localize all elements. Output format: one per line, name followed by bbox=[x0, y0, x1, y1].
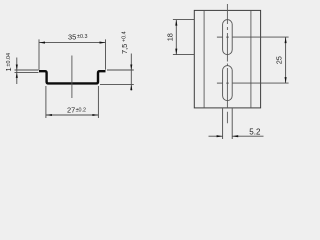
arrowhead above 7,5 dim bbox=[130, 65, 132, 71]
DIN rail cross-section profile (left view) bbox=[39, 71, 106, 83]
svg-text:18: 18 bbox=[165, 33, 174, 41]
arrowhead top of 18 dim bbox=[175, 20, 177, 26]
dimension 5.2 (slot width) bbox=[209, 109, 264, 140]
dimension line 18 bbox=[175, 20, 177, 55]
svg-text:5.2: 5.2 bbox=[249, 128, 261, 137]
arrowhead top of 25 dim bbox=[285, 37, 287, 43]
svg-text:1: 1 bbox=[4, 67, 13, 71]
extension line slot1 bottom bbox=[173, 54, 194, 56]
dimension line left segment bbox=[209, 135, 223, 137]
extension line from slot2 center (dash-dot) bbox=[217, 82, 223, 84]
extension line top surface of flange bbox=[15, 69, 39, 71]
slot 2 (obround hole) bbox=[223, 66, 233, 101]
dimension line 7,5 (vertical) bbox=[130, 54, 132, 91]
dimension line 35 bbox=[39, 42, 106, 44]
extension line slot right edge bbox=[231, 109, 233, 140]
dimension 7,5 +0.4 (rail depth) bbox=[100, 54, 134, 91]
dimension 1 ±0.04 (material thickness) bbox=[15, 58, 39, 85]
extension line from slot1 center (dash-dot) bbox=[217, 36, 223, 38]
extension line right of 27 bbox=[97, 86, 99, 118]
arrowhead right of 27 dim bbox=[92, 114, 98, 116]
arrowhead bottom of 25 dim bbox=[285, 77, 287, 83]
rail front view outline (right view) bbox=[194, 10, 260, 108]
svg-text:7,5: 7,5 bbox=[120, 44, 129, 54]
dimension 18 (slot length) bbox=[173, 20, 194, 55]
svg-text:±0.2: ±0.2 bbox=[76, 107, 86, 113]
arrowhead right of 35 dim bbox=[100, 42, 106, 44]
arrowhead left of 35 dim bbox=[39, 42, 45, 44]
extension line right of 35 bbox=[105, 39, 107, 69]
arrowhead below 1 dim bbox=[16, 72, 18, 78]
svg-text:+0.4: +0.4 bbox=[122, 31, 128, 42]
extension line slot1 top bbox=[173, 19, 194, 21]
arrowhead left of 27 dim bbox=[46, 114, 52, 116]
extension line left of 27 bbox=[45, 86, 47, 118]
dimension line 27 bbox=[46, 114, 99, 116]
dimension line right segment bbox=[232, 135, 263, 137]
extension line top (flange top surface) bbox=[107, 69, 134, 71]
centerline of cross-section bbox=[71, 56, 73, 99]
arrowhead above 1 dim bbox=[16, 65, 18, 71]
extension line slot left edge bbox=[222, 109, 224, 140]
svg-text:35: 35 bbox=[68, 32, 76, 41]
vertical centerline through slots bbox=[226, 4, 228, 124]
dimension 27 ±0.2 bbox=[46, 86, 99, 118]
arrowhead pointing left at slot right edge bbox=[232, 135, 238, 137]
dimension line 25 bbox=[285, 37, 287, 83]
extension line left of 35 bbox=[38, 39, 40, 69]
arrowhead bottom of 18 dim bbox=[175, 49, 177, 55]
arrowhead pointing right at slot left edge bbox=[217, 135, 223, 137]
svg-text:25: 25 bbox=[275, 56, 284, 64]
svg-text:±0.04: ±0.04 bbox=[6, 53, 12, 66]
extension line bottom surface of flange bbox=[15, 71, 39, 73]
dimension 25 (slot pitch) bbox=[217, 37, 289, 83]
dimension line 1 (vertical) bbox=[16, 58, 18, 85]
extension line bottom (channel bottom surface) bbox=[100, 84, 134, 86]
bend line right bbox=[250, 10, 252, 108]
svg-text:27: 27 bbox=[67, 106, 75, 115]
slot 1 (obround hole) bbox=[223, 20, 233, 55]
svg-text:±0.3: ±0.3 bbox=[77, 34, 87, 40]
arrowhead below 7,5 dim bbox=[130, 85, 132, 91]
dimension 35 ±0.3 bbox=[39, 39, 106, 69]
bend line left bbox=[203, 10, 205, 108]
